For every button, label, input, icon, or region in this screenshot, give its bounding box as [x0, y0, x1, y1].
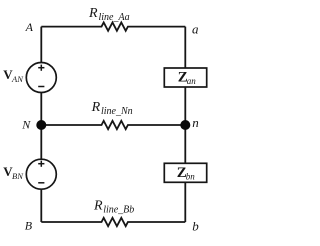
svg-text:A: A — [25, 20, 34, 34]
svg-text:bn: bn — [186, 172, 196, 182]
svg-text:AN: AN — [11, 74, 24, 84]
svg-text:line_Nn: line_Nn — [101, 106, 133, 117]
svg-text:a: a — [192, 21, 199, 36]
svg-text:an: an — [187, 76, 197, 86]
svg-text:line_Bb: line_Bb — [103, 205, 134, 216]
svg-text:N: N — [21, 117, 31, 131]
svg-text:b: b — [192, 218, 199, 233]
svg-text:R: R — [91, 100, 101, 115]
svg-text:BN: BN — [12, 171, 24, 181]
svg-text:line_Aa: line_Aa — [99, 12, 130, 23]
svg-text:B: B — [25, 219, 33, 233]
svg-text:n: n — [192, 115, 199, 130]
svg-text:R: R — [88, 6, 98, 21]
svg-text:R: R — [93, 199, 103, 214]
